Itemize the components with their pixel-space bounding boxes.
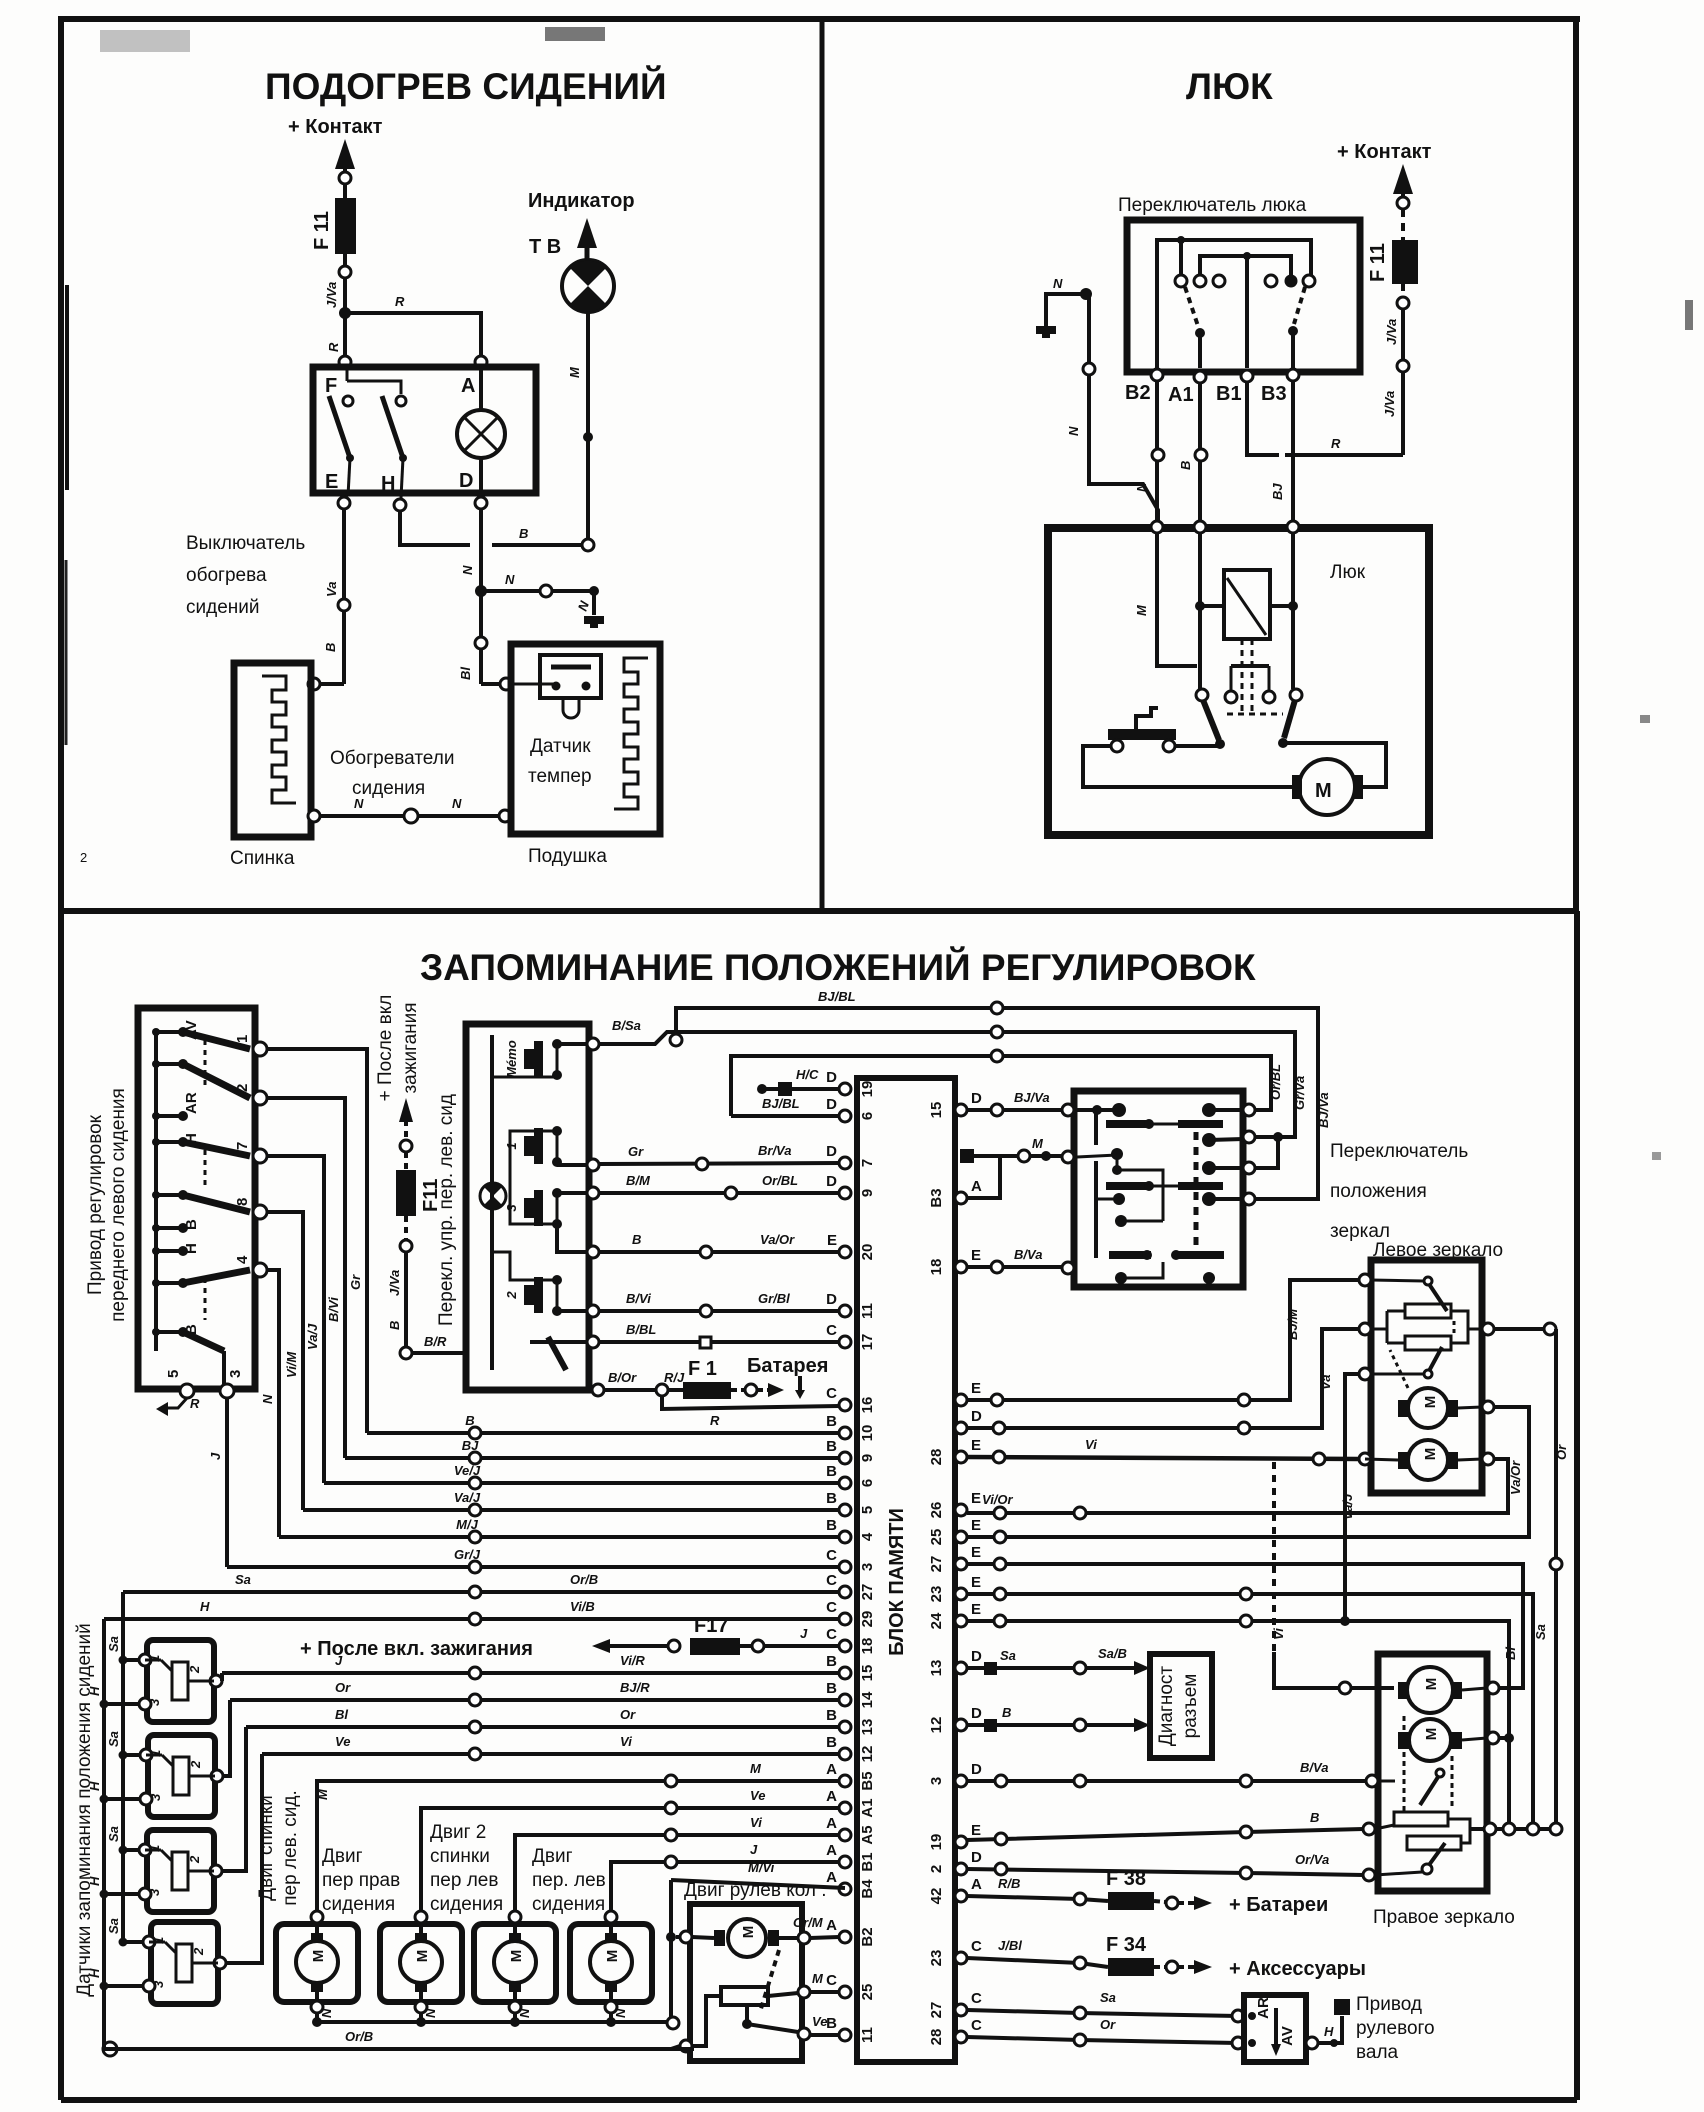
pin A42 right y=1896 — [955, 1890, 967, 1902]
svg-text:H: H — [87, 1686, 102, 1696]
svg-text:3: 3 — [147, 1698, 162, 1706]
svg-text:M: M — [604, 1950, 621, 1963]
pin E26 right y=1510 — [955, 1504, 967, 1516]
E wire down — [342, 509, 346, 600]
svg-text:M: M — [812, 1971, 824, 1986]
svg-text:F 11: F 11 — [1367, 243, 1389, 282]
svg-text:N: N — [1066, 426, 1081, 436]
svg-text:D: D — [459, 470, 473, 492]
svg-text:17: 17 — [859, 1334, 876, 1351]
svg-text:N: N — [517, 2008, 532, 2018]
sensor box 3 — [147, 1830, 214, 1912]
svg-text:Or/Va: Or/Va — [1295, 1852, 1329, 1867]
svg-text:M: M — [740, 1926, 757, 1939]
svg-text:BJ: BJ — [462, 1438, 479, 1453]
H bus — [102, 1619, 106, 2049]
svg-text:J: J — [750, 1842, 758, 1857]
svg-text:Or/BL: Or/BL — [1268, 1064, 1283, 1100]
terminal circles E H D — [338, 497, 350, 509]
B wire from H — [400, 511, 470, 545]
svg-text:D: D — [826, 1291, 837, 1308]
svg-text:A: A — [461, 375, 475, 397]
svg-text:8: 8 — [234, 1198, 251, 1206]
button 3 — [534, 1190, 543, 1226]
svg-text:Vi: Vi — [620, 1734, 632, 1749]
svg-text:H: H — [87, 1968, 102, 1978]
svg-text:Ve: Ve — [812, 2014, 827, 2029]
inner frame B1 path — [1200, 256, 1291, 275]
button Mémo — [534, 1041, 543, 1077]
svg-text:6: 6 — [859, 1112, 876, 1120]
svg-text:B1: B1 — [1216, 383, 1242, 405]
svg-text:B: B — [323, 643, 338, 652]
pin C17 left y=1342 — [839, 1336, 851, 1348]
svg-text:Датчик: Датчик — [530, 736, 591, 757]
svg-text:Правое зеркало: Правое зеркало — [1373, 1907, 1515, 1928]
svg-text:25: 25 — [928, 1529, 945, 1546]
svg-text:7: 7 — [234, 1142, 251, 1150]
R wire to pin16 — [662, 1396, 839, 1409]
pot wiper tap — [745, 2005, 749, 2024]
pin D13 right y=1668 — [955, 1662, 967, 1674]
svg-text:Двиг: Двиг — [322, 1846, 363, 1867]
svg-text:F 38: F 38 — [1106, 1868, 1146, 1890]
pot left loop — [692, 1996, 721, 2046]
svg-text:A: A — [826, 1842, 837, 1859]
svg-text:Va/Or: Va/Or — [1508, 1460, 1523, 1495]
svg-text:Ve: Ve — [750, 1788, 765, 1803]
fuse F11 right — [1392, 240, 1418, 284]
svg-text:E: E — [971, 1574, 981, 1591]
pin AB2 left y=1937 — [839, 1931, 851, 1943]
svg-text:Sa: Sa — [106, 1731, 121, 1747]
svg-text:B: B — [183, 1219, 200, 1230]
node circle — [339, 266, 351, 278]
svg-text:A: A — [826, 1788, 837, 1805]
switch blades — [183, 1032, 250, 1049]
svg-text:H/C: H/C — [796, 1067, 819, 1082]
svg-text:B: B — [1002, 1705, 1011, 1720]
svg-text:Привод: Привод — [1356, 1994, 1422, 2015]
svg-text:Va/Or: Va/Or — [760, 1232, 795, 1247]
svg-text:BJ/Va: BJ/Va — [1316, 1092, 1331, 1128]
svg-text:M: M — [414, 1950, 431, 1963]
row Sa/B to diag — [967, 1666, 1140, 1670]
pin E18 right y=1267 — [955, 1261, 967, 1273]
pin D12 right y=1725 — [955, 1719, 967, 1731]
svg-text:18: 18 — [859, 1638, 876, 1655]
right mirror pot — [1394, 1812, 1448, 1826]
pin AA1 left y=1808 — [839, 1802, 851, 1814]
svg-text:A: A — [971, 1178, 982, 1195]
svg-text:сидения: сидения — [322, 1894, 395, 1915]
row BJ y=1458 — [345, 1456, 839, 1460]
svg-text:D: D — [971, 1408, 982, 1425]
svg-text:27: 27 — [859, 1584, 876, 1601]
svg-text:C: C — [971, 2017, 982, 2034]
svg-text:4: 4 — [234, 1255, 251, 1264]
pin B6 left y=1483 — [839, 1477, 851, 1489]
rows D3 E19 D2 to right mirror — [967, 1779, 1372, 1783]
svg-text:Va/J: Va/J — [454, 1490, 481, 1505]
junction dot — [339, 307, 351, 319]
seat motor 3 — [474, 1924, 556, 2002]
switch lamp — [480, 1183, 506, 1209]
svg-text:J/Va: J/Va — [324, 282, 339, 308]
svg-text:E: E — [971, 1544, 981, 1561]
svg-text:29: 29 — [859, 1611, 876, 1628]
sunroof unit box — [1048, 528, 1429, 835]
svg-text:N: N — [1134, 482, 1149, 492]
svg-text:B: B — [826, 1517, 837, 1534]
row Gr pin7 — [599, 1163, 839, 1164]
svg-text:A1: A1 — [1168, 384, 1194, 406]
svg-text:B3: B3 — [928, 1188, 945, 1207]
svg-text:B/M: B/M — [626, 1173, 651, 1188]
svg-text:Or/B: Or/B — [345, 2029, 373, 2044]
svg-text:Br/Va: Br/Va — [758, 1143, 791, 1158]
row Gr/J y=1567 — [227, 1565, 839, 1569]
row Sa/OrB y=1592 — [123, 1590, 839, 1594]
row Or/BJ/R y=1700 — [230, 1698, 839, 1702]
row M/Vi to pin B4 — [671, 1880, 845, 1888]
svg-text:9: 9 — [859, 1454, 876, 1462]
svg-text:Vi/B: Vi/B — [570, 1599, 595, 1614]
svg-text:R: R — [710, 1413, 720, 1428]
bottom border — [61, 2097, 1577, 2103]
svg-text:27: 27 — [928, 1556, 945, 1573]
right mirror — [1378, 1654, 1487, 1891]
wire from left mirror D3 row into box — [1378, 1780, 1395, 1783]
svg-text:Vi/Or: Vi/Or — [982, 1492, 1014, 1507]
svg-text:D: D — [826, 1069, 837, 1086]
svg-text:C: C — [826, 1547, 837, 1564]
svg-text:B: B — [1310, 1810, 1319, 1825]
svg-text:3: 3 — [151, 1980, 166, 1988]
row Va/J y=1510 — [303, 1508, 839, 1512]
M wire down — [586, 312, 590, 545]
row B/Vi pin11 — [599, 1309, 839, 1313]
svg-text:H: H — [381, 473, 395, 495]
svg-text:J/Va: J/Va — [387, 1270, 402, 1296]
svg-text:Vi: Vi — [1085, 1437, 1097, 1452]
svg-text:2: 2 — [504, 1291, 519, 1300]
svg-text:Двиг: Двиг — [532, 1846, 573, 1867]
svg-text:6: 6 — [859, 1479, 876, 1487]
pin B4 left y=1537 — [839, 1531, 851, 1543]
svg-text:20: 20 — [859, 1244, 876, 1261]
svg-text:F 11: F 11 — [311, 211, 333, 250]
svg-text:27: 27 — [928, 2002, 945, 2019]
svg-text:5: 5 — [165, 1370, 182, 1378]
row B pin20 — [599, 1250, 839, 1254]
sunroof switch box — [1127, 220, 1360, 372]
svg-text:C: C — [826, 1322, 837, 1339]
dashed wiper link — [760, 1950, 779, 2012]
svg-text:E: E — [971, 1490, 981, 1507]
svg-text:2: 2 — [80, 850, 87, 865]
svg-text:2: 2 — [928, 1865, 945, 1873]
outer top border — [58, 16, 1580, 22]
terminals on bottom edge — [1151, 369, 1163, 381]
wire to sensor — [481, 682, 500, 686]
wire from left limit to motor — [1083, 746, 1294, 787]
fuse F1 — [683, 1382, 731, 1399]
svg-text:сидений: сидений — [186, 597, 260, 618]
svg-text:Bl: Bl — [335, 1707, 348, 1722]
svg-text:BJ/BL: BJ/BL — [818, 989, 856, 1004]
svg-text:M: M — [567, 366, 582, 378]
svg-text:Переключатель люка: Переключатель люка — [1118, 195, 1307, 216]
svg-text:7: 7 — [859, 1159, 876, 1167]
svg-text:M: M — [750, 1761, 762, 1776]
blade 1 — [329, 396, 350, 458]
pin D3 right y=1781 — [955, 1775, 967, 1787]
svg-text:Gr: Gr — [348, 1274, 363, 1290]
pin E28 right y=1457 — [955, 1451, 967, 1463]
svg-text:Ve/J: Ve/J — [454, 1463, 481, 1478]
svg-text:R/B: R/B — [998, 1876, 1020, 1891]
svg-text:B/BL: B/BL — [626, 1322, 656, 1337]
svg-text:переднего левого сидения: переднего левого сидения — [108, 1088, 129, 1322]
svg-text:N: N — [613, 2008, 628, 2018]
pin E25 right y=1537 — [955, 1531, 967, 1543]
svg-text:11: 11 — [859, 2027, 876, 2043]
pin C28 right y=2037 — [955, 2031, 967, 2043]
svg-text:M: M — [1032, 1136, 1044, 1151]
svg-text:1: 1 — [234, 1035, 251, 1043]
svg-text:B: B — [826, 1490, 837, 1507]
svg-text:R: R — [190, 1396, 200, 1411]
svg-text:ЗАПОМИНАНИЕ ПОЛОЖЕНИЙ РЕГУЛИРО: ЗАПОМИНАНИЕ ПОЛОЖЕНИЙ РЕГУЛИРОВОК — [420, 946, 1256, 988]
svg-text:Переключатель: Переключатель — [1330, 1141, 1468, 1162]
svg-text:26: 26 — [928, 1502, 945, 1519]
svg-text:A: A — [826, 1815, 837, 1832]
svg-text:разъем: разъем — [1180, 1674, 1201, 1739]
Or vertical — [1494, 1327, 1556, 1331]
pin E27 right y=1564 — [955, 1558, 967, 1570]
lamp in box — [457, 410, 505, 458]
R wire to B1 — [1285, 453, 1403, 457]
svg-text:D: D — [971, 1849, 982, 1866]
svg-text:A5: A5 — [859, 1825, 876, 1844]
pin D15 right y=1110 — [955, 1104, 967, 1116]
motor common bus — [317, 2020, 679, 2024]
svg-text:D: D — [826, 1173, 837, 1190]
D/N wire down — [479, 509, 483, 684]
svg-text:M: M — [1422, 1396, 1439, 1409]
svg-text:E: E — [971, 1517, 981, 1534]
blades dashed — [1185, 287, 1198, 326]
svg-text:Обогреватели: Обогреватели — [330, 748, 454, 769]
svg-text:C: C — [826, 1599, 837, 1616]
svg-text:F17: F17 — [694, 1615, 728, 1637]
svg-text:зажигания: зажигания — [400, 1002, 421, 1093]
pin B13 left y=1727 — [839, 1721, 851, 1733]
B3 line to pivot — [1291, 533, 1295, 689]
rows to mirror right side — [967, 1459, 1508, 1513]
wire B/Sa — [599, 1032, 1295, 1137]
pin C18 left y=1646 — [839, 1640, 851, 1652]
svg-text:BJ/Va: BJ/Va — [1014, 1090, 1050, 1105]
svg-text:пер лев. сид.: пер лев. сид. — [280, 1790, 301, 1905]
svg-text:Двиг 2: Двиг 2 — [430, 1822, 486, 1843]
svg-text:Sa: Sa — [1100, 1990, 1116, 2005]
svg-text:12: 12 — [928, 1717, 945, 1734]
svg-text:F: F — [325, 375, 337, 397]
pin C27 left y=1592 — [839, 1586, 851, 1598]
relay actuator dashed — [1241, 639, 1244, 712]
svg-text:B: B — [826, 1413, 837, 1430]
svg-text:М: М — [1315, 780, 1332, 802]
svg-text:H: H — [183, 1243, 200, 1254]
wire to mirror switch top — [731, 1056, 1271, 1116]
row BJ/Va to mirror switch — [967, 1108, 1068, 1112]
cushion box — [511, 644, 660, 834]
pin B9 left y=1458 — [839, 1452, 851, 1464]
row F1 battery — [604, 1388, 656, 1392]
svg-text:E: E — [827, 1232, 837, 1249]
rows from block to left mirror — [967, 1280, 1359, 1400]
wire to junction — [343, 278, 347, 360]
svg-text:AV: AV — [183, 1020, 200, 1040]
pin B5 left y=1510 — [839, 1504, 851, 1516]
svg-text:H: H — [87, 1781, 102, 1791]
svg-text:E: E — [971, 1601, 981, 1618]
divider top-left / top-right panels — [820, 19, 825, 911]
svg-text:12: 12 — [859, 1746, 876, 1763]
svg-text:+ Батареи: + Батареи — [1229, 1894, 1328, 1916]
svg-text:15: 15 — [928, 1102, 945, 1119]
svg-text:BJ/BL: BJ/BL — [762, 1096, 800, 1111]
svg-text:42: 42 — [928, 1888, 945, 1905]
svg-text:10: 10 — [859, 1425, 876, 1442]
svg-text:M: M — [315, 1788, 330, 1800]
row B to diag — [967, 1723, 1140, 1727]
svg-text:A: A — [826, 1761, 837, 1778]
svg-text:Vi: Vi — [750, 1815, 762, 1830]
svg-text:B: B — [826, 1707, 837, 1724]
svg-text:E: E — [971, 1247, 981, 1264]
AR AV box — [1244, 1995, 1306, 2062]
svg-text:B/Va: B/Va — [1300, 1760, 1328, 1775]
svg-text:Подушка: Подушка — [528, 846, 607, 867]
svg-text:Or/B: Or/B — [570, 1572, 598, 1587]
mirror motors right — [1407, 1667, 1453, 1713]
svg-text:M: M — [1422, 1448, 1439, 1461]
svg-text:Sa/B: Sa/B — [1098, 1646, 1127, 1661]
row B/BL pin17 — [599, 1340, 839, 1344]
row BJ/BL pin6 — [731, 1114, 839, 1118]
svg-text:+ После вкл: + После вкл — [375, 995, 396, 1102]
svg-text:Or/M: Or/M — [793, 1915, 824, 1930]
svg-text:Gr/Bl: Gr/Bl — [758, 1291, 790, 1306]
svg-text:J: J — [208, 1452, 223, 1460]
svg-text:E: E — [971, 1822, 981, 1839]
svg-text:B/Sa: B/Sa — [612, 1018, 641, 1033]
limit switch — [1108, 729, 1176, 740]
svg-text:M/Vi: M/Vi — [748, 1860, 775, 1875]
pin AB5 left y=1781 — [839, 1775, 851, 1787]
svg-text:Привод регулировок: Привод регулировок — [85, 1114, 106, 1295]
svg-text:+ Контакт: + Контакт — [1337, 141, 1432, 163]
resistors — [1405, 1304, 1451, 1318]
svg-text:B2: B2 — [859, 1927, 876, 1946]
svg-text:D: D — [971, 1761, 982, 1778]
diagnostic connector box — [1150, 1654, 1212, 1758]
fuse F34 + accessories — [967, 1958, 1108, 1967]
svg-text:B/Or: B/Or — [608, 1370, 637, 1385]
pin D9 left y=1193 — [839, 1187, 851, 1199]
node circle — [339, 172, 351, 184]
svg-text:вала: вала — [1356, 2042, 1399, 2063]
B3 wire down — [1291, 381, 1295, 524]
scan artifacts — [65, 285, 69, 490]
row M with connector square — [967, 1156, 1068, 1198]
right border top panels — [1573, 19, 1579, 911]
svg-text:Vi/M: Vi/M — [284, 1351, 299, 1378]
svg-text:B/R: B/R — [424, 1334, 447, 1349]
pin AB1 left y=1862 — [839, 1856, 851, 1868]
motor right to pin B2 — [779, 1936, 798, 1940]
svg-text:Люк: Люк — [1330, 562, 1366, 583]
svg-text:C: C — [826, 1385, 837, 1402]
svg-text:Or: Or — [335, 1680, 351, 1695]
svg-text:J: J — [800, 1626, 808, 1641]
row J/Vi/R y=1673 — [222, 1671, 839, 1675]
svg-text:F 1: F 1 — [688, 1358, 717, 1380]
left border — [58, 19, 64, 2100]
svg-text:M: M — [1423, 1678, 1440, 1691]
fuse F38 + battery — [967, 1896, 1108, 1901]
svg-text:пер прав: пер прав — [322, 1870, 400, 1891]
pin E23 right y=1594 — [955, 1588, 967, 1600]
fuse F11 bottom — [396, 1170, 416, 1216]
svg-text:B: B — [1178, 461, 1193, 470]
svg-text:спинки: спинки — [430, 1846, 490, 1867]
svg-text:ПОДОГРЕВ СИДЕНИЙ: ПОДОГРЕВ СИДЕНИЙ — [265, 65, 667, 107]
svg-text:D: D — [826, 1143, 837, 1160]
svg-text:N: N — [1053, 276, 1063, 291]
svg-text:N: N — [260, 1394, 275, 1404]
pin C3 left y=1567 — [839, 1561, 851, 1573]
wiper — [1424, 1277, 1432, 1285]
steering motor — [728, 1919, 766, 1957]
indicator lamp — [562, 260, 614, 312]
svg-text:сидения: сидения — [352, 778, 425, 799]
bottom Or/B wire — [103, 2042, 117, 2056]
fuse F17 — [690, 1638, 740, 1655]
svg-text:N: N — [423, 2008, 438, 2018]
svg-text:сидения: сидения — [532, 1894, 605, 1915]
left vertical — [669, 1880, 673, 2018]
relay — [1224, 570, 1270, 639]
svg-text:AR: AR — [183, 1092, 200, 1114]
svg-text:C: C — [826, 1572, 837, 1589]
svg-text:B: B — [519, 526, 528, 541]
svg-text:Sa: Sa — [106, 1918, 121, 1934]
contact arrow dashed — [1393, 164, 1413, 194]
row Ve/J y=1483 — [324, 1481, 839, 1485]
svg-text:E: E — [971, 1380, 981, 1397]
svg-text:J/Bl: J/Bl — [998, 1938, 1022, 1953]
pin B15 left y=1673 — [839, 1667, 851, 1679]
svg-text:4: 4 — [859, 1532, 876, 1541]
svg-text:BJ/M: BJ/M — [1285, 1308, 1300, 1340]
horizontal divider — [61, 908, 1576, 914]
pin D2 right y=1869 — [955, 1863, 967, 1875]
svg-text:3: 3 — [148, 1793, 163, 1801]
